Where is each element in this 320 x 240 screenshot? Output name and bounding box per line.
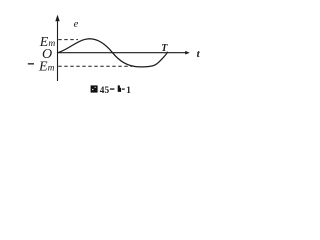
caption em dash bbox=[110, 88, 115, 89]
caption hyphen bbox=[122, 89, 125, 90]
svg-text:e: e bbox=[74, 19, 79, 30]
vertical axis arrowhead bbox=[55, 15, 59, 22]
label -Em bbox=[28, 63, 34, 64]
vertical axis e bbox=[57, 20, 59, 81]
caption: glyph 图 (drawn as dark block) bbox=[91, 85, 98, 92]
svg-text:T: T bbox=[161, 43, 168, 54]
caption glyph II (drawn as dark block) bbox=[118, 85, 121, 92]
sine curve e(t) bbox=[58, 39, 168, 67]
dashed line at -Em bbox=[58, 65, 132, 67]
horizontal axis t bbox=[58, 52, 188, 54]
dashed line at +Em bbox=[58, 39, 78, 41]
svg-text:1: 1 bbox=[126, 86, 131, 96]
svg-text:45: 45 bbox=[100, 86, 110, 96]
sine-wave EMF diagram, figure 45-II-1 bbox=[0, 0, 240, 125]
horizontal axis arrowhead bbox=[185, 51, 190, 55]
